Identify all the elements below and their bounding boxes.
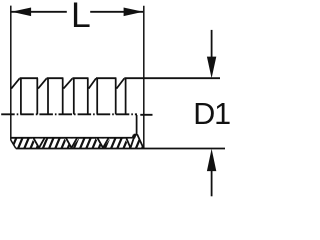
serration slant 3 — [64, 78, 73, 88]
lower-left end chamfer — [11, 140, 16, 148]
serration tooth vertical V_b3 — [73, 78, 75, 114]
D1 arrowhead top — [207, 57, 216, 79]
serration tooth vertical V_b2 — [47, 78, 49, 114]
notch V 4 — [126, 135, 135, 148]
bore line of lower wall — [11, 137, 133, 139]
serration tooth vertical V_b5 — [125, 78, 127, 114]
serration slant 2 — [38, 78, 47, 88]
bottom outer line + D1 bottom extension line — [16, 148, 225, 150]
serration tooth vertical V_a5 — [115, 78, 117, 114]
hatching of lower wall section — [4, 131, 156, 153]
notch V 2 — [66, 138, 77, 148]
notch V 3 — [97, 138, 108, 148]
svg-text:D1: D1 — [193, 97, 230, 131]
notch white triangle 4 — [125, 139, 136, 149]
dimension line L right segment — [90, 11, 143, 13]
serration tooth vertical V_b1 — [20, 78, 22, 114]
notch white triangle 3 — [96, 139, 110, 149]
notch white triangle 1 — [32, 139, 46, 149]
notch white triangle 2 — [64, 139, 78, 149]
arrowhead L left — [12, 8, 32, 17]
serration tooth vertical V_a2 — [36, 78, 38, 114]
serration tooth vertical V_a4 — [87, 78, 89, 114]
centerline dash-dot (overlaps serration groove bottoms) — [1, 113, 137, 115]
serration slant 4 — [89, 78, 96, 88]
serration slant 5 — [117, 78, 125, 88]
flange outer chamfer — [137, 134, 143, 147]
serration chamfer 1 (left end) — [11, 78, 19, 88]
svg-text:L: L — [71, 0, 91, 35]
serration tooth vertical V_a3 — [62, 78, 64, 114]
flange left face — [136, 115, 138, 135]
D1 arrowhead bottom — [207, 149, 216, 171]
flange step chamfer — [133, 135, 134, 138]
serration tooth vertical V_b4 — [96, 78, 98, 114]
dimension line L left segment — [12, 11, 67, 13]
extension line right (merges with ferrule right edge) — [143, 6, 145, 149]
flange top edge — [134, 134, 138, 136]
D1 arrow top shaft — [211, 30, 213, 58]
arrowhead L right — [124, 8, 144, 17]
notch V 1 — [33, 138, 44, 148]
D1 arrow bottom shaft — [211, 170, 213, 196]
extension line left (merges with ferrule left edge) — [10, 6, 12, 141]
centerline end dash — [140, 114, 152, 116]
ferrule top outer line + D1 top extension line — [20, 77, 220, 79]
